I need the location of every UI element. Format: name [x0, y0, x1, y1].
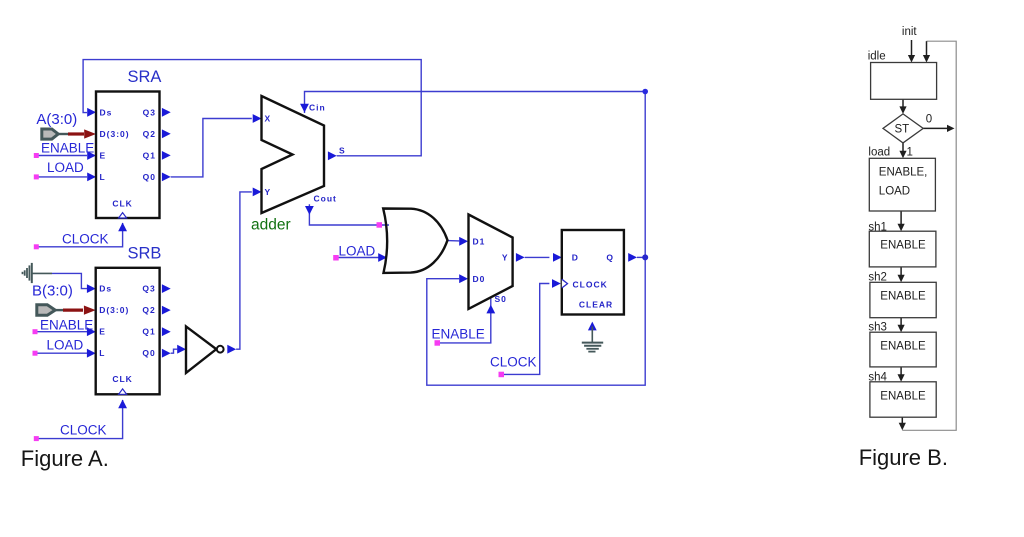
svg-text:Q3: Q3 — [143, 107, 156, 117]
svg-text:D1: D1 — [473, 237, 486, 247]
svg-text:Q1: Q1 — [142, 327, 155, 337]
svg-text:B(3:0): B(3:0) — [32, 283, 73, 300]
svg-text:CLEAR: CLEAR — [579, 299, 613, 309]
svg-text:CLK: CLK — [112, 374, 132, 384]
svg-text:ST: ST — [895, 124, 910, 136]
svg-text:LOAD: LOAD — [47, 338, 84, 353]
svg-text:sh3: sh3 — [868, 322, 887, 334]
svg-text:ENABLE: ENABLE — [432, 327, 485, 342]
svg-text:ENABLE: ENABLE — [40, 318, 93, 333]
svg-text:LOAD: LOAD — [339, 244, 376, 259]
svg-text:A(3:0): A(3:0) — [36, 111, 77, 128]
svg-text:Figure A.: Figure A. — [21, 446, 109, 471]
svg-text:Q0: Q0 — [143, 172, 156, 182]
svg-text:E: E — [99, 327, 106, 337]
svg-text:ENABLE: ENABLE — [41, 141, 94, 156]
svg-text:ENABLE,: ENABLE, — [879, 167, 928, 179]
svg-text:Q2: Q2 — [142, 305, 155, 315]
svg-text:Q1: Q1 — [143, 150, 156, 160]
svg-text:L: L — [100, 172, 106, 182]
svg-text:D0: D0 — [473, 274, 486, 284]
svg-text:Y: Y — [502, 253, 509, 263]
svg-text:0: 0 — [926, 114, 932, 126]
svg-text:Q2: Q2 — [143, 129, 156, 139]
svg-text:1: 1 — [907, 146, 913, 158]
svg-text:S0: S0 — [495, 294, 507, 304]
svg-text:Cout: Cout — [314, 194, 337, 204]
svg-text:E: E — [100, 150, 107, 160]
svg-text:D: D — [572, 253, 579, 263]
svg-text:ENABLE: ENABLE — [880, 291, 926, 303]
svg-text:CLOCK: CLOCK — [490, 355, 537, 370]
svg-text:CLOCK: CLOCK — [62, 232, 109, 247]
svg-text:sh2: sh2 — [868, 272, 887, 284]
svg-text:ENABLE: ENABLE — [880, 240, 926, 252]
svg-text:LOAD: LOAD — [879, 185, 910, 197]
svg-text:CLOCK: CLOCK — [60, 423, 107, 438]
svg-text:adder: adder — [251, 217, 291, 234]
svg-text:Q: Q — [606, 253, 614, 263]
svg-text:S: S — [339, 145, 346, 155]
svg-text:sh4: sh4 — [868, 371, 887, 383]
svg-text:Y: Y — [265, 187, 272, 197]
svg-text:load: load — [868, 147, 890, 159]
svg-text:ENABLE: ENABLE — [880, 391, 926, 403]
svg-text:Cin: Cin — [309, 103, 326, 113]
svg-text:idle: idle — [868, 51, 886, 63]
svg-text:X: X — [265, 114, 272, 124]
svg-text:SRB: SRB — [128, 245, 162, 263]
svg-text:D(3:0): D(3:0) — [100, 129, 130, 139]
svg-text:LOAD: LOAD — [47, 160, 84, 175]
svg-text:ENABLE: ENABLE — [880, 341, 926, 353]
svg-text:Ds: Ds — [100, 107, 113, 117]
svg-text:init: init — [902, 26, 918, 38]
svg-text:CLOCK: CLOCK — [573, 280, 608, 290]
svg-text:Figure B.: Figure B. — [859, 445, 948, 470]
svg-text:Q3: Q3 — [142, 284, 155, 294]
svg-text:SRA: SRA — [128, 68, 162, 86]
svg-text:D(3:0): D(3:0) — [99, 305, 129, 315]
svg-text:sh1: sh1 — [868, 222, 887, 234]
svg-text:Ds: Ds — [99, 284, 112, 294]
svg-text:CLK: CLK — [112, 199, 132, 209]
svg-text:L: L — [99, 348, 105, 358]
svg-text:Q0: Q0 — [142, 348, 155, 358]
